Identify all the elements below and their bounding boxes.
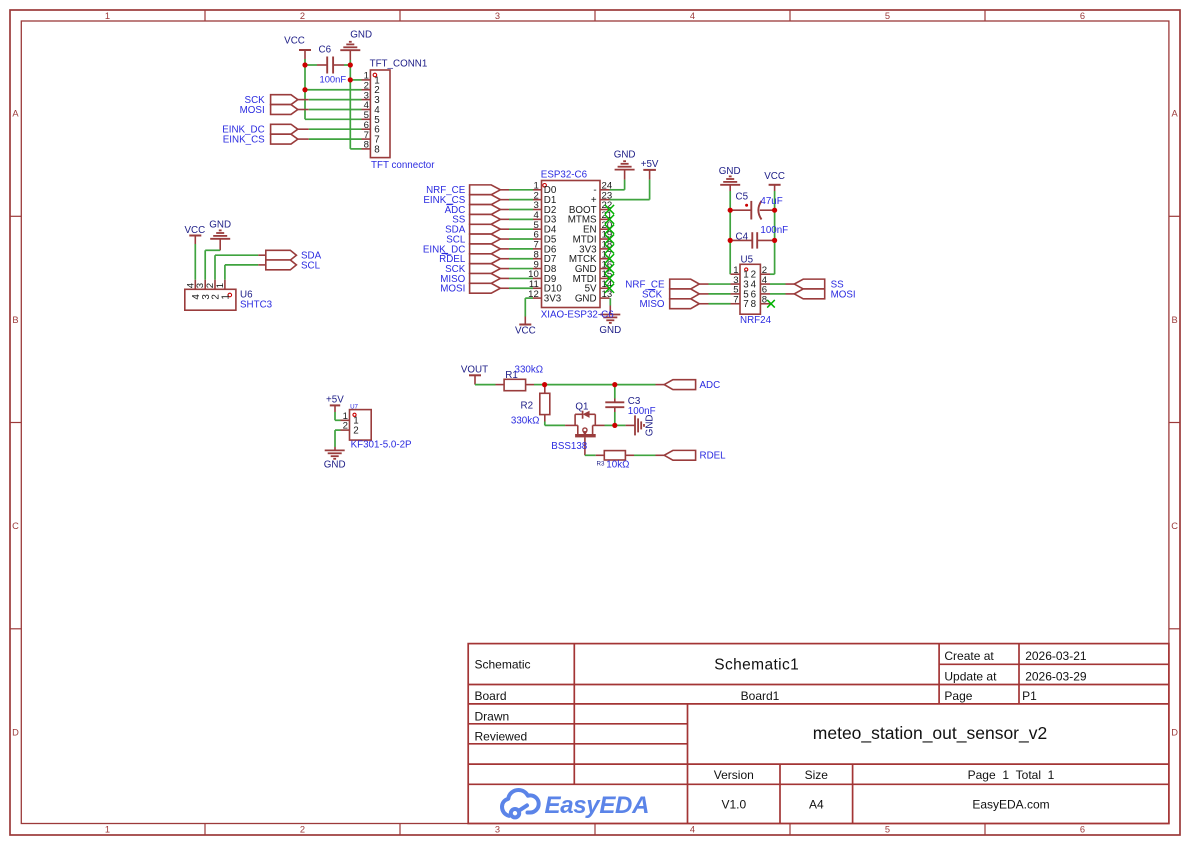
- svg-text:MOSI: MOSI: [440, 284, 465, 295]
- net port SDA: [258, 254, 266, 256]
- svg-text:5: 5: [885, 825, 890, 835]
- wire U7 pin2 to GND: [335, 429, 341, 431]
- svg-text:330kΩ: 330kΩ: [511, 416, 540, 427]
- frame row letters: [12, 109, 1178, 738]
- net port SCK (ESP32 pin 9): [470, 264, 501, 274]
- ground GND (below ESP32): [609, 306, 611, 315]
- net port SS (ESP32 pin 4): [470, 214, 501, 224]
- svg-text:3: 3: [495, 11, 500, 21]
- wire junction to C3 junction: [545, 384, 615, 386]
- wire VCC to C6 junction: [304, 59, 306, 65]
- svg-text:C: C: [12, 521, 19, 531]
- ground GND (KF301): [334, 447, 336, 450]
- title block text: [475, 649, 1087, 812]
- wire Q1 drain to junction: [605, 424, 615, 426]
- net port EINK_CS (ESP32 pin 2): [470, 195, 501, 205]
- svg-text:+5V: +5V: [641, 159, 659, 170]
- svg-text:RDEL: RDEL: [700, 451, 727, 462]
- net port NRF_CE (ESP32 pin 1): [470, 185, 501, 195]
- svg-text:VCC: VCC: [515, 325, 536, 336]
- svg-text:TFT connector: TFT connector: [371, 160, 435, 171]
- svg-text:GND: GND: [614, 150, 636, 161]
- wire pin8: [350, 148, 361, 150]
- net port EINK_DC (ESP32 pin 7): [470, 244, 501, 254]
- wire pin2: [305, 89, 362, 91]
- svg-text:GND: GND: [719, 166, 741, 177]
- svg-text:A4: A4: [809, 798, 824, 812]
- wire pin2 to SDA: [214, 255, 216, 280]
- wire pin1 to SCL: [224, 265, 226, 280]
- wire junction to GND: [615, 424, 626, 426]
- svg-text:C6: C6: [319, 44, 332, 55]
- svg-text:ADC: ADC: [700, 380, 721, 391]
- svg-text:2026-03-29: 2026-03-29: [1025, 669, 1087, 683]
- svg-text:BSS138: BSS138: [551, 441, 588, 452]
- net port SS (U5 pin4): [794, 279, 824, 289]
- wire VCC to pin4: [194, 244, 196, 280]
- svg-text:7: 7: [733, 294, 738, 305]
- wire pin5: [305, 118, 362, 120]
- net port NRF_CE (U5 pin3): [670, 279, 700, 289]
- svg-text:3V3: 3V3: [544, 294, 562, 305]
- ground GND (above ESP32): [624, 170, 626, 180]
- svg-text:Update at: Update at: [944, 669, 997, 683]
- resistor R3 10k: [596, 454, 605, 456]
- wire C6 left lead: [305, 64, 317, 66]
- svg-text:1: 1: [105, 11, 110, 21]
- wire VOUT to R1: [475, 384, 496, 386]
- svg-text:Reviewed: Reviewed: [475, 729, 528, 743]
- svg-text:ESP32-C6: ESP32-C6: [541, 169, 588, 180]
- svg-text:8: 8: [751, 299, 757, 310]
- node junction C5 right: [772, 208, 777, 213]
- sensor U6 SHTC3: [194, 280, 196, 290]
- svg-text:8: 8: [364, 140, 369, 151]
- svg-text:Board: Board: [475, 689, 507, 703]
- overline on ADC flag: [447, 203, 454, 205]
- wire Q1 gate to R3: [585, 454, 596, 456]
- overline on SCK flag: [648, 289, 655, 291]
- svg-text:2: 2: [343, 421, 348, 432]
- svg-text:GND: GND: [645, 415, 656, 437]
- svg-text:EINK_CS: EINK_CS: [223, 135, 265, 146]
- wire to ADC flag: [615, 384, 656, 386]
- svg-text:2: 2: [300, 825, 305, 835]
- node junction pin2 branch: [302, 87, 307, 92]
- svg-text:Schematic1: Schematic1: [714, 657, 799, 674]
- svg-text:2: 2: [353, 426, 358, 437]
- node junction Q1/C3/GND: [612, 423, 617, 428]
- wire R1 to junction: [534, 384, 545, 386]
- svg-text:5: 5: [885, 11, 890, 21]
- capacitor C5 47uF polarized: [730, 209, 751, 211]
- capacitor C6: [317, 64, 327, 66]
- wire vertical bus to pin8: [349, 80, 351, 149]
- svg-text:V1.0: V1.0: [721, 798, 746, 812]
- svg-text:GND: GND: [209, 219, 231, 230]
- wire R2 to Q1: [544, 422, 546, 426]
- no-connect X U5 pin8: [767, 300, 775, 308]
- wire GND down to pin1 junction: [349, 60, 351, 80]
- svg-text:Page: Page: [944, 689, 972, 703]
- net port SCK (U5 pin5): [670, 289, 700, 299]
- wire C6 right lead: [344, 64, 350, 66]
- wire GND to pin3: [205, 249, 220, 251]
- svg-text:Drawn: Drawn: [475, 709, 510, 723]
- net port EINK_DC (TFT): [271, 124, 298, 134]
- svg-text:330kΩ: 330kΩ: [515, 364, 544, 375]
- wire R3 to RDEL flag: [634, 454, 656, 456]
- svg-text:MOSI: MOSI: [831, 289, 856, 300]
- svg-text:47uF: 47uF: [760, 196, 782, 207]
- wire ESP32 pin23 to +5V: [610, 199, 650, 201]
- wire +5V to U7 pin1: [334, 412, 336, 420]
- capacitor C4 100nF: [730, 239, 752, 241]
- svg-text:KF301-5.0-2P: KF301-5.0-2P: [351, 440, 412, 451]
- node junction R1/R2/ADC: [542, 382, 547, 387]
- svg-text:Board1: Board1: [741, 689, 780, 703]
- node junction C5 left: [728, 208, 733, 213]
- EasyEDA logo: [502, 790, 539, 817]
- capacitor C3 100nF: [614, 385, 616, 399]
- svg-text:XIAO-ESP32-C6: XIAO-ESP32-C6: [541, 310, 615, 321]
- node junction C3 top: [612, 382, 617, 387]
- net port SDA (ESP32 pin 5): [470, 224, 501, 234]
- svg-text:+5V: +5V: [326, 394, 344, 405]
- svg-text:100nF: 100nF: [760, 225, 788, 236]
- svg-text:GND: GND: [599, 325, 621, 336]
- svg-text:Schematic: Schematic: [475, 658, 531, 672]
- power flag +5V (ESP32): [649, 170, 651, 180]
- node junction VCC/C6 left: [302, 62, 307, 67]
- svg-text:3: 3: [495, 825, 500, 835]
- svg-text:EasyEDA.com: EasyEDA.com: [972, 798, 1049, 812]
- svg-text:2026-03-21: 2026-03-21: [1025, 649, 1087, 663]
- no-connect X marks ESP32 pins 22-14: [605, 205, 614, 214]
- wire GND rail down to U5 pin1: [729, 191, 731, 274]
- svg-text:P1: P1: [1022, 689, 1037, 703]
- net port EINK_CS (TFT): [271, 134, 298, 144]
- svg-text:100nF: 100nF: [320, 74, 347, 85]
- wire ESP32 pin24 to GND: [610, 189, 625, 191]
- svg-text:D: D: [12, 727, 19, 737]
- svg-text:SCL: SCL: [301, 260, 321, 271]
- wire ESP32 pin12 to VCC: [525, 297, 533, 299]
- net port ADC (ESP32 pin 3): [470, 205, 501, 215]
- wire VCC vertical to pin2 junction: [304, 65, 306, 90]
- svg-text:2: 2: [300, 11, 305, 21]
- svg-text:B: B: [12, 315, 18, 325]
- svg-text:GND: GND: [324, 460, 346, 471]
- svg-text:1: 1: [221, 294, 232, 299]
- svg-text:Version: Version: [714, 768, 754, 782]
- power flag VCC (below ESP32): [524, 317, 526, 324]
- svg-text:VCC: VCC: [284, 36, 305, 47]
- wire ESP32 pin13 to GND: [609, 298, 611, 305]
- svg-text:8: 8: [374, 144, 380, 155]
- svg-text:4: 4: [690, 825, 695, 835]
- svg-text:MOSI: MOSI: [240, 105, 265, 116]
- net port RDEL (ESP32 pin 8): [470, 254, 501, 264]
- net port MOSI (ESP32 pin 11): [470, 283, 501, 293]
- svg-text:4: 4: [690, 11, 695, 21]
- net port RDEL: [656, 454, 665, 456]
- net port MISO (ESP32 pin 10): [470, 273, 501, 283]
- svg-text:MISO: MISO: [639, 299, 664, 310]
- svg-text:8: 8: [762, 294, 767, 305]
- resistor R2 330k: [544, 385, 546, 394]
- node junction C4 left: [728, 238, 733, 243]
- svg-text:R3: R3: [597, 460, 605, 467]
- svg-text:Size: Size: [805, 768, 829, 782]
- svg-text:A: A: [1171, 109, 1178, 119]
- ground GND (rotated, analog section): [626, 424, 635, 426]
- svg-text:D: D: [1171, 727, 1178, 737]
- overline on RDEL flag: [442, 253, 449, 255]
- net port SCK (TFT): [271, 95, 298, 105]
- svg-text:GND: GND: [575, 294, 597, 305]
- svg-text:R2: R2: [521, 401, 534, 412]
- wire vertical VCC bus to pin5: [304, 90, 306, 120]
- svg-text:TFT_CONN1: TFT_CONN1: [370, 59, 428, 70]
- net port ADC: [656, 384, 665, 386]
- svg-text:B: B: [1171, 315, 1177, 325]
- net port MISO (U5 pin7): [670, 299, 700, 309]
- node junction C4 right: [772, 238, 777, 243]
- wire VCC rail down to U5 pin2: [774, 191, 776, 274]
- svg-text:C5: C5: [736, 192, 749, 203]
- svg-text:10kΩ: 10kΩ: [606, 460, 629, 471]
- svg-text:1: 1: [215, 283, 226, 288]
- svg-text:7: 7: [743, 299, 748, 310]
- resistor R1 330k: [496, 384, 505, 386]
- svg-text:EasyEDA: EasyEDA: [545, 792, 650, 819]
- svg-text:A: A: [12, 109, 19, 119]
- svg-text:C4: C4: [736, 232, 749, 243]
- svg-text:6: 6: [1080, 825, 1085, 835]
- wire pin1: [350, 79, 361, 81]
- svg-text:C: C: [1171, 521, 1178, 531]
- node junction C6/GND: [348, 62, 353, 67]
- svg-text:meteo_station_out_sensor_v2: meteo_station_out_sensor_v2: [813, 723, 1047, 744]
- wire C3 to GND junction: [614, 412, 616, 425]
- svg-text:Page 1 Total 1: Page 1 Total 1: [968, 768, 1055, 782]
- svg-text:1: 1: [105, 825, 110, 835]
- title block table: [468, 644, 1169, 824]
- svg-text:NRF24: NRF24: [740, 315, 772, 326]
- svg-text:SHTC3: SHTC3: [240, 299, 273, 310]
- net port SCL (ESP32 pin 6): [470, 234, 501, 244]
- net port MOSI (U5 pin6): [794, 289, 824, 299]
- svg-text:VCC: VCC: [764, 171, 785, 182]
- node junction pin1 branch: [348, 77, 353, 82]
- svg-text:VOUT: VOUT: [461, 365, 488, 376]
- net port MOSI (TFT): [271, 105, 298, 115]
- svg-text:Create at: Create at: [944, 649, 994, 663]
- svg-text:6: 6: [1080, 11, 1085, 21]
- net port SCL: [258, 264, 266, 266]
- svg-text:GND: GND: [350, 30, 372, 41]
